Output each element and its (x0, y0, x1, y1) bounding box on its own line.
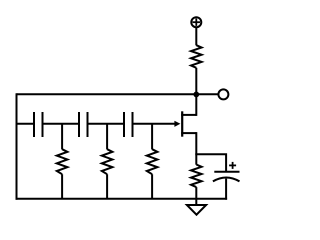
wire (bottom rail) (16, 198, 228, 200)
wire (R1 top lead) (61, 124, 63, 150)
resistor R3 (147, 149, 158, 174)
output terminal (218, 89, 228, 99)
resistor R2 (102, 149, 113, 174)
capacitor C3 (124, 112, 133, 137)
node (drain junction) (193, 92, 199, 98)
wire (Rd to drain node) (195, 68, 197, 95)
wire (supply to Rd) (195, 27, 197, 45)
wire (C1 to C2) (43, 123, 80, 125)
plus label (Cs polarity) (229, 162, 236, 169)
wire (source to bypass capacitor) (195, 154, 226, 171)
wire (R2 bottom lead) (106, 174, 108, 199)
wire (R3 top lead) (151, 124, 153, 150)
capacitor Cs (bypass, polarized) (213, 172, 240, 200)
ground (187, 199, 206, 215)
capacitor C1 (34, 112, 43, 137)
wire (left rail to C1) (17, 123, 35, 125)
wire (R3 bottom lead) (151, 174, 153, 199)
wire (drain node to output) (196, 93, 219, 95)
capacitor C2 (79, 112, 88, 137)
wire (feedback top) (17, 93, 197, 95)
power supply V+ (191, 17, 201, 27)
wire (Rs bottom lead) (195, 187, 197, 199)
resistor Rd (drain resistor) (191, 45, 202, 68)
resistor Rs (source resistor) (191, 165, 202, 188)
transistor Q1 (N-JFET) (181, 94, 196, 164)
resistor R1 (57, 149, 68, 174)
wire (left rail) (16, 93, 18, 199)
wire (R2 top lead) (106, 124, 108, 150)
wire (C2 to C3) (88, 123, 125, 125)
wire (C3 to gate, with arrow) (133, 121, 181, 127)
wire (R1 bottom lead) (61, 174, 63, 199)
